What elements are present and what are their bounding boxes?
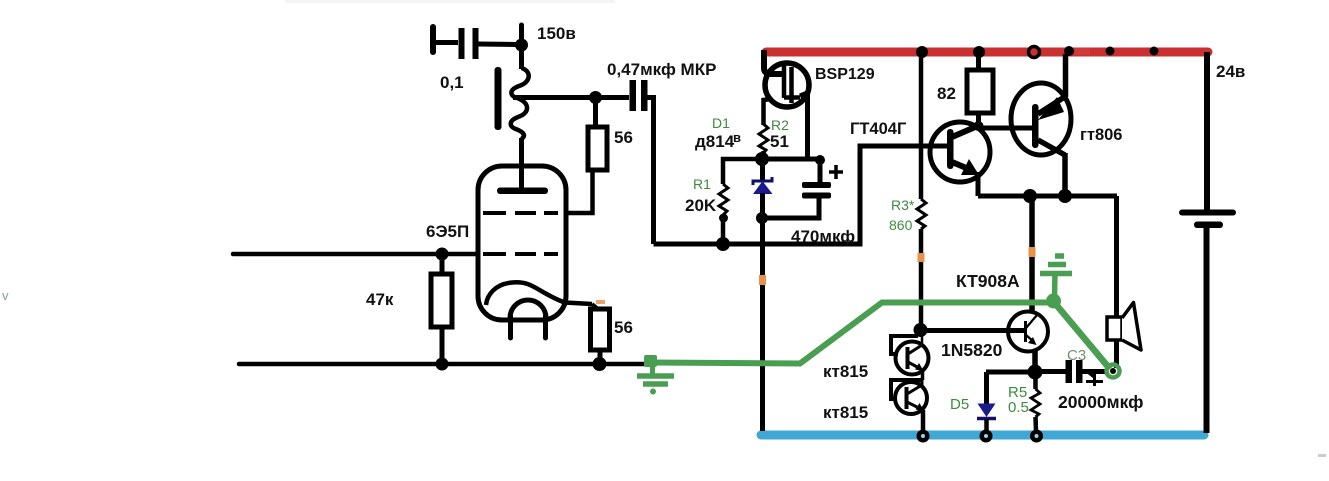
diode D5 bottom wire xyxy=(984,419,989,431)
svg-text:D5: D5 xyxy=(950,396,969,413)
wire xyxy=(478,42,518,48)
ground symbol right bars xyxy=(1055,253,1064,259)
transistor ГТ404Г base bar xyxy=(947,129,954,169)
battery minus plate xyxy=(1194,222,1223,229)
svg-text:470мкф: 470мкф xyxy=(791,227,855,246)
svg-text:ГТ404Г: ГТ404Г xyxy=(850,120,907,138)
terminal ring on ground bus xyxy=(980,430,993,443)
svg-text:R1: R1 xyxy=(693,176,711,192)
tube anode lead xyxy=(519,138,524,188)
svg-text:кт815: кт815 xyxy=(823,403,868,422)
wire ГТ404Г emitter down xyxy=(976,172,981,196)
node dot on red rail at 82 xyxy=(973,46,985,58)
wire bias rail to base corner xyxy=(654,146,948,244)
battery 24в lead top xyxy=(1204,52,1210,210)
svg-text:0.5: 0.5 xyxy=(1008,399,1029,416)
wire bias node rail xyxy=(762,157,820,162)
svg-text:1N5820: 1N5820 xyxy=(941,340,1003,360)
node tap junction dot xyxy=(589,91,602,104)
wire КТ908А collector up xyxy=(1029,196,1035,312)
resistor R3 860 zigzag xyxy=(917,199,926,229)
transistor гт806 emitter arrow xyxy=(1038,97,1064,120)
transistor ГТ404Г emitter diagonal with arrow xyxy=(952,162,971,170)
wire cathode to resistor xyxy=(592,304,598,309)
capacitor 470мкф top lead xyxy=(818,159,823,182)
node zener bottom dot xyxy=(756,212,768,224)
wire Q3 emitter to Q4 xyxy=(921,369,925,380)
node driver junction dot xyxy=(974,121,984,131)
svg-text:R3*: R3* xyxy=(891,197,915,213)
svg-text:51: 51 xyxy=(770,132,789,151)
svg-text:82: 82 xyxy=(937,84,956,103)
node dot on red rail at R3 xyxy=(916,46,928,58)
inductor L1 core bar xyxy=(495,67,502,130)
svg-text:6Э5П: 6Э5П xyxy=(426,222,469,241)
wire xyxy=(721,215,726,244)
transistor гт806 emitter diagonal xyxy=(1038,96,1066,114)
ground symbol left bar1 xyxy=(637,373,674,379)
ground symbol left stem xyxy=(650,364,655,374)
svg-text:кт815: кт815 xyxy=(823,362,868,381)
transistor Q4 diagonals xyxy=(907,385,922,408)
transistor КТ908А emitter diagonal with arrow xyxy=(1026,335,1034,342)
input line bottom xyxy=(239,362,647,367)
svg-text:КТ908А: КТ908А xyxy=(956,271,1020,291)
resistor R3 lead from rail xyxy=(919,54,924,199)
node cathode ground dot xyxy=(593,357,607,371)
transistor КТ908А collector diagonal xyxy=(1026,315,1037,328)
resistor 82 lead top xyxy=(976,54,981,70)
transistor Q3 diagonals xyxy=(908,345,922,368)
node 150v terminal stub xyxy=(519,25,524,45)
wire xyxy=(440,254,445,364)
svg-text:0,1: 0,1 xyxy=(440,73,464,92)
bracket base tie lower xyxy=(891,380,923,399)
node base bias dot xyxy=(914,323,928,337)
faint top artifact line xyxy=(285,0,615,3)
inductor L1 winding xyxy=(511,68,529,139)
capacitor C3 right lead xyxy=(1082,369,1108,374)
resistor 82 body xyxy=(967,70,993,113)
node output dots xyxy=(1023,189,1037,203)
ring on red rail xyxy=(1029,47,1040,58)
terminal ring on ground bus xyxy=(917,430,930,443)
svg-text:150в: 150в xyxy=(537,24,576,43)
transistor Q4 base bar xyxy=(905,387,909,409)
tube grid 2 dashed xyxy=(483,211,558,215)
wire гт806 emitter to rail xyxy=(1063,54,1069,97)
capacitor polarity plus xyxy=(829,165,843,179)
blue rail ground xyxy=(761,431,1204,440)
transistor ГТ404Г collector diagonal xyxy=(952,125,981,138)
svg-text:v: v xyxy=(2,288,9,303)
tube anode plate xyxy=(497,188,548,195)
svg-text:56: 56 xyxy=(614,318,633,337)
wire junction to гт806 base xyxy=(978,126,1032,131)
green wire to output xyxy=(650,303,1051,364)
resistor R1 20K zigzag xyxy=(719,184,728,215)
battery plus plate xyxy=(1179,210,1236,216)
svg-text:R2: R2 xyxy=(771,117,789,133)
svg-text:д814: д814 xyxy=(695,132,735,151)
zener D1 cathode bar xyxy=(753,177,772,185)
capacitor 0,1 left terminal xyxy=(430,27,436,52)
capacitor 470мкф plates xyxy=(802,182,831,188)
capacitor C3 plates xyxy=(1066,360,1073,383)
speaker horn xyxy=(1122,303,1141,351)
transistor Q3 кт815 upper circle xyxy=(896,342,929,375)
resistor 56 upper body xyxy=(588,127,607,170)
faint mark bottom right xyxy=(1318,454,1326,457)
transistor U1 BSP129 drain wire xyxy=(764,50,783,74)
red rail +24v xyxy=(766,48,1208,57)
resistor R5 lead xyxy=(1033,372,1038,389)
green node junction blob xyxy=(1046,294,1061,309)
orange mark on collector wire xyxy=(1029,247,1036,257)
capacitor C3 polarity mark xyxy=(1085,369,1103,386)
node bias dot xyxy=(755,152,769,166)
tube cathode curve xyxy=(486,282,592,305)
transistor Q4 кт815 lower circle xyxy=(895,382,927,414)
tube grid 1 dashed xyxy=(483,252,558,256)
capacitor C 0,1 plates xyxy=(459,28,465,59)
zener D1 anode wire xyxy=(760,159,765,180)
wire cap output down xyxy=(647,98,654,245)
transistor гт806 collector diagonal xyxy=(1038,140,1065,155)
green wire diagonal to output ring xyxy=(1054,302,1111,370)
transistor U1 BSP129 inner bars xyxy=(784,64,800,103)
node input bottom dot xyxy=(436,358,449,371)
svg-text:20K: 20K xyxy=(685,196,717,215)
wire R5 to ground xyxy=(1033,417,1038,431)
green output terminal ring xyxy=(1107,365,1120,378)
wire zener to ground xyxy=(760,193,765,431)
diode D5 bar xyxy=(977,417,996,421)
transistor ГТ404Г body circle xyxy=(930,122,990,182)
tube heater legs xyxy=(511,316,546,338)
bracket base tie upper xyxy=(891,336,918,354)
terminal ring on ground bus xyxy=(1030,430,1043,443)
svg-text:56: 56 xyxy=(614,128,633,147)
resistor 47к body xyxy=(431,274,452,327)
node R1 small dot xyxy=(719,214,728,223)
cathode corner orange speck xyxy=(596,300,605,304)
wire xyxy=(761,151,766,159)
node dot on red rail at гт806 emitter xyxy=(1064,46,1074,56)
capacitor C3 left lead xyxy=(1035,369,1066,374)
speaker lead bottom xyxy=(1114,340,1119,368)
transistor U1 BSP129 body circle xyxy=(765,63,809,107)
wire base rail to КТ908А xyxy=(920,328,1024,333)
wire Q4 emitter to ground xyxy=(921,410,926,432)
svg-text:24в: 24в xyxy=(1216,62,1245,81)
wire Q4 collector stub xyxy=(921,380,924,386)
wire xyxy=(595,95,629,100)
wire output node rail xyxy=(978,194,1117,199)
wire BSP source down xyxy=(800,93,808,159)
resistor R5 zigzag xyxy=(1031,389,1040,417)
zener D1 triangle xyxy=(754,182,772,194)
svg-text:гт806: гт806 xyxy=(1080,126,1122,144)
wire КТ908А emitter down xyxy=(1032,349,1038,372)
node bias rail dot xyxy=(716,237,730,251)
wire xyxy=(593,98,598,128)
capacitor 470мкф bottom lead xyxy=(762,198,819,218)
svg-text:47к: 47к xyxy=(366,290,394,309)
transistor Q3 кт815 upper collector stub xyxy=(921,330,924,345)
diode D5 triangle xyxy=(978,404,996,418)
input line top xyxy=(233,252,478,257)
small dot on red rail xyxy=(1150,47,1159,56)
wire R3 to base node xyxy=(919,229,924,330)
green wire input ground blob xyxy=(644,355,657,367)
wire anode supply xyxy=(519,45,524,69)
ground symbol left dot xyxy=(650,389,656,395)
orange mark on zener ground wire xyxy=(759,275,766,285)
svg-text:D1: D1 xyxy=(712,115,730,131)
transistor гт806 base bar xyxy=(1032,104,1039,148)
battery lead bottom xyxy=(1204,228,1210,433)
transistor гт806 body ellipse xyxy=(1011,83,1071,155)
speaker body xyxy=(1107,317,1122,340)
wire xyxy=(598,350,603,363)
node emitter output dot xyxy=(1028,365,1043,380)
svg-text:в: в xyxy=(733,130,741,145)
capacitor 0,47мкф plates xyxy=(630,80,637,111)
red rail bright overlay xyxy=(1075,48,1090,55)
transistor КТ908А base bar xyxy=(1024,321,1027,342)
node cap top corner dot xyxy=(815,155,825,165)
wire 82 to junction xyxy=(976,113,981,126)
node input top dot xyxy=(436,248,449,261)
diode D5 top wire xyxy=(986,372,1035,404)
wire R1 top xyxy=(723,159,762,184)
speaker lead top xyxy=(1114,196,1119,318)
small dot on red rail xyxy=(1106,47,1115,56)
svg-text:C3: C3 xyxy=(1067,347,1086,364)
wire гт806 collector down xyxy=(1062,153,1068,196)
resistor 56 lower body xyxy=(591,309,610,350)
transistor КТ908А body circle xyxy=(1008,312,1048,352)
wire xyxy=(433,40,458,45)
orange mark on R3 wire xyxy=(918,253,925,262)
node 150v junction dot xyxy=(515,39,528,52)
tube heater arch xyxy=(510,300,546,318)
transistor Q3 base bar xyxy=(906,347,910,369)
svg-text:860: 860 xyxy=(889,217,913,233)
svg-text:BSP129: BSP129 xyxy=(815,66,875,83)
wire R2 top link xyxy=(764,99,772,125)
wire screen grid to resistor xyxy=(566,170,593,213)
resistor R2 51 zigzag xyxy=(759,124,768,153)
svg-text:20000мкф: 20000мкф xyxy=(1058,392,1143,412)
ground symbol left bar2 xyxy=(643,381,668,387)
ground symbol right stem xyxy=(1052,274,1058,296)
tube 6Э5П envelope xyxy=(478,166,566,320)
svg-text:0,47мкф МКР: 0,47мкф МКР xyxy=(607,60,716,79)
wire tap to coupling cap xyxy=(513,95,592,100)
